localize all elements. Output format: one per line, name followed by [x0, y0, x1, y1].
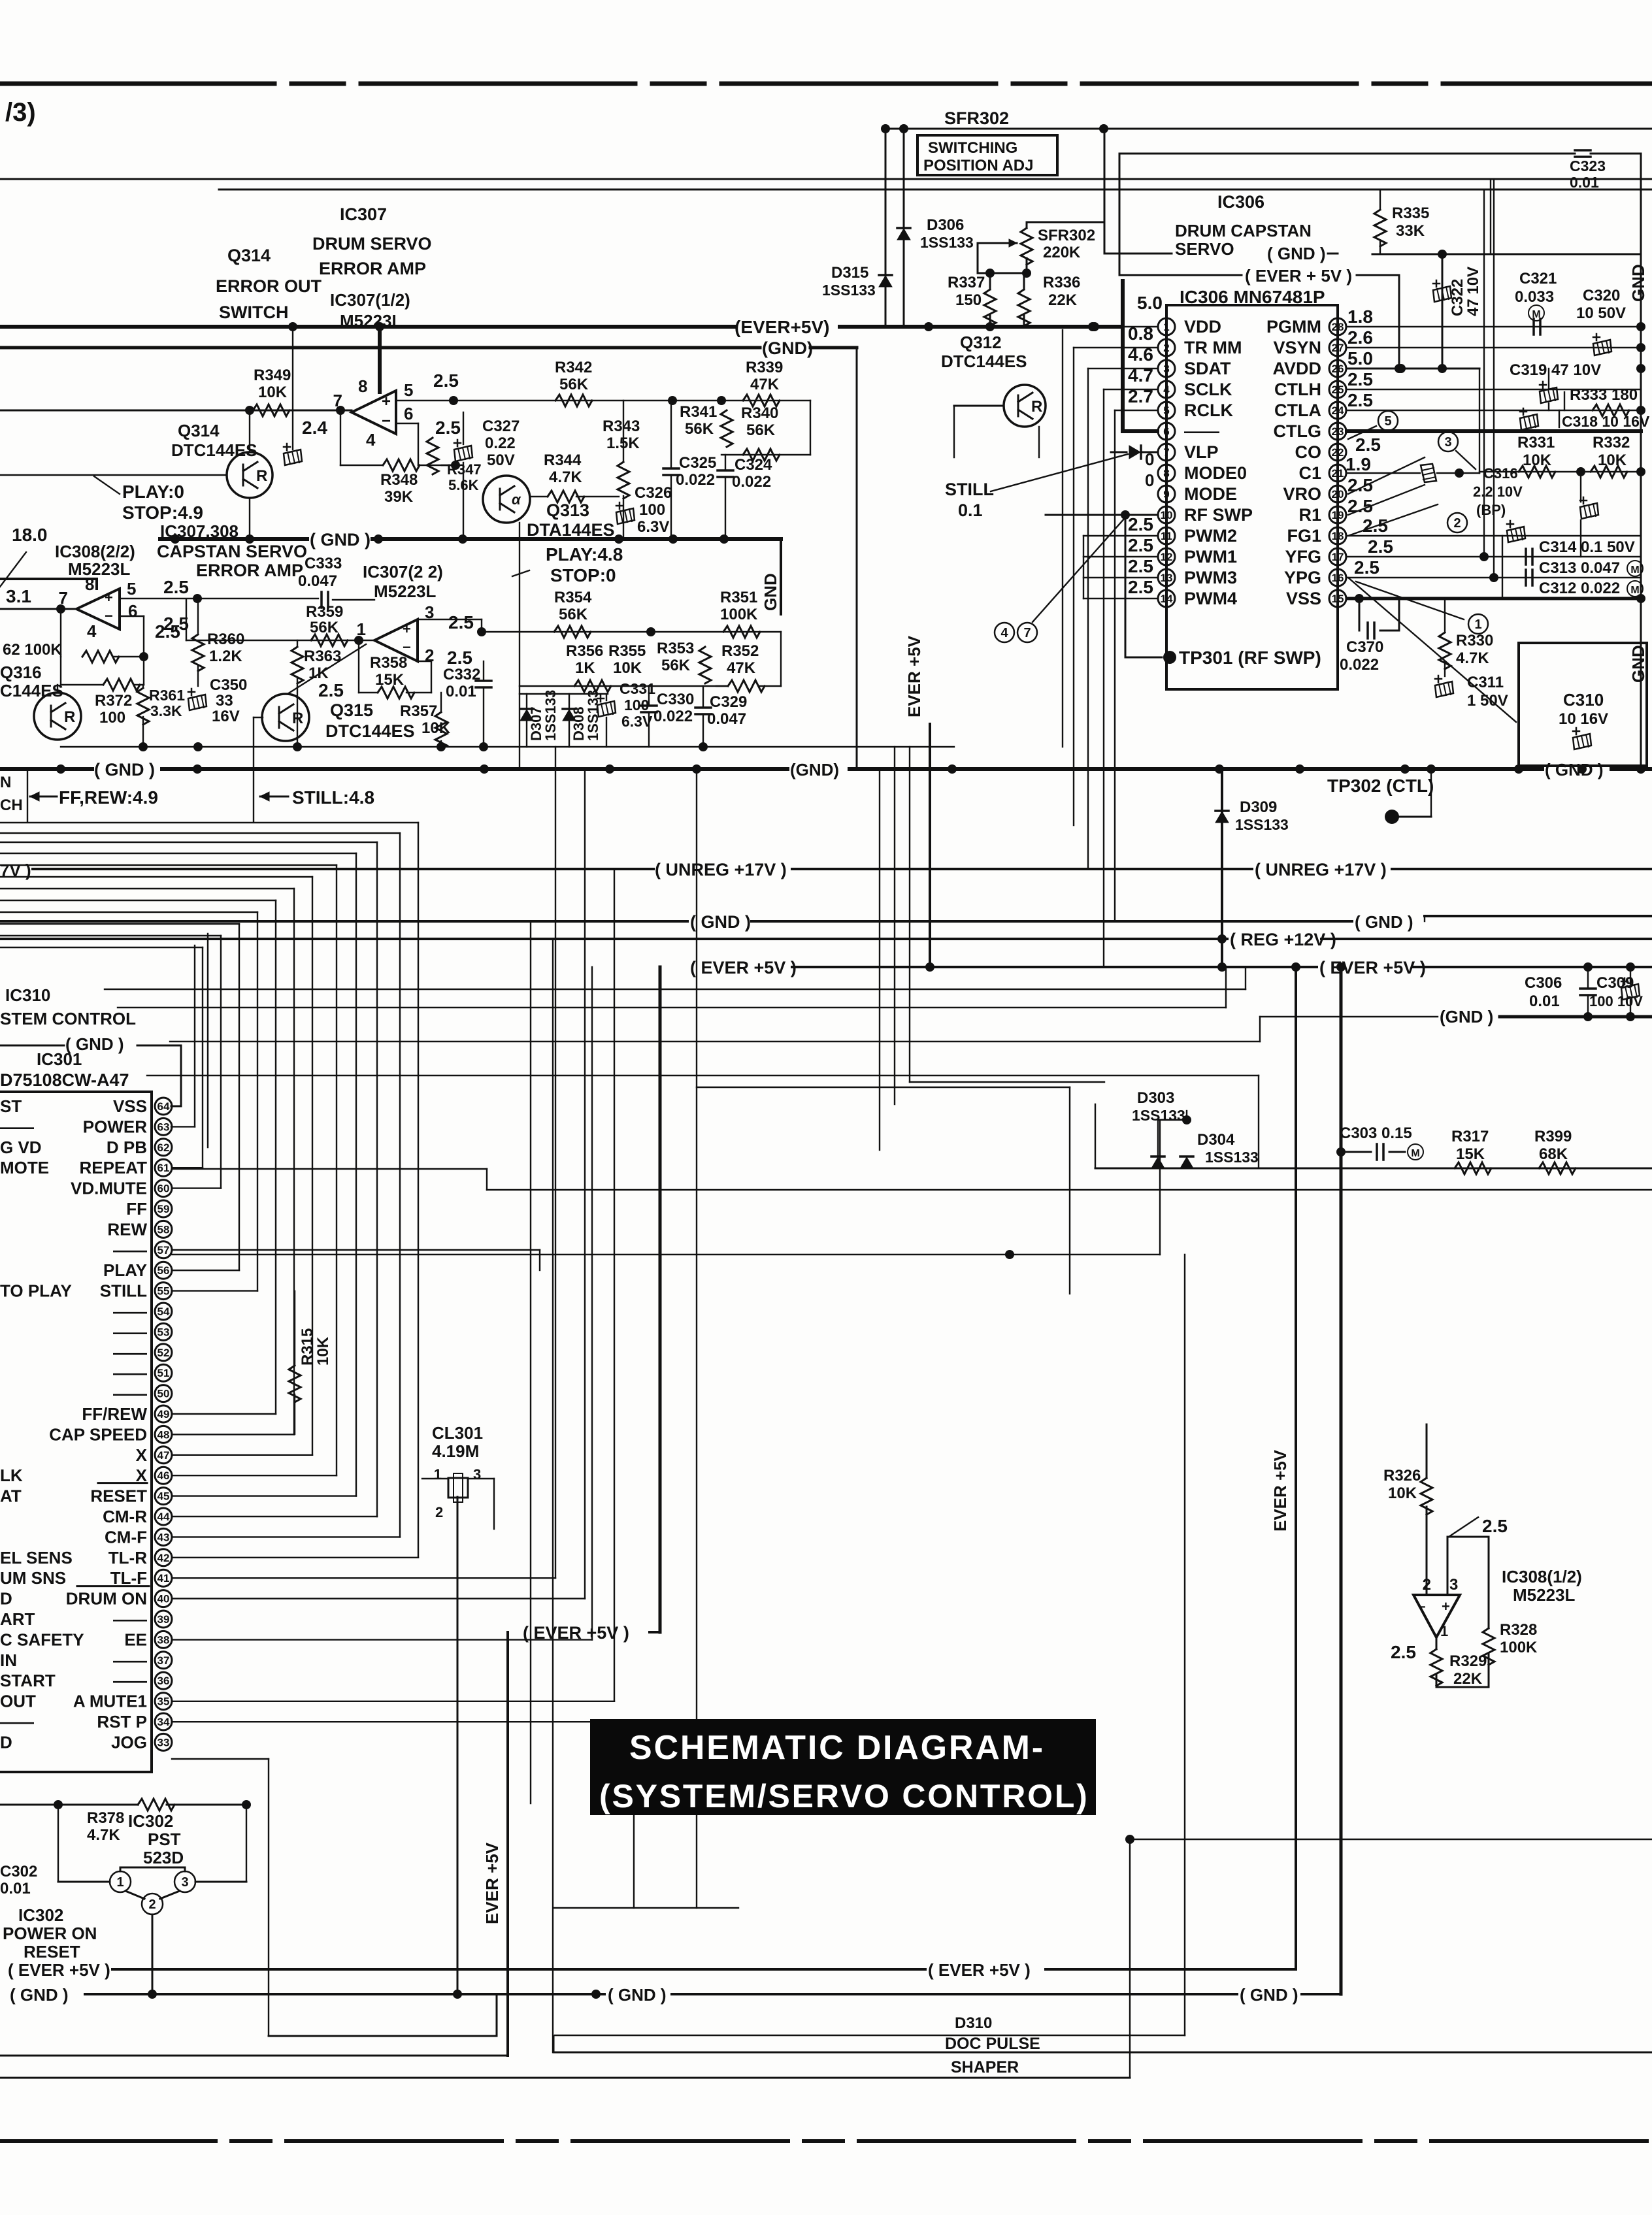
svg-text:R361: R361	[149, 687, 185, 704]
svg-text:(GND): (GND)	[790, 760, 839, 779]
svg-text:10K: 10K	[258, 384, 288, 401]
svg-text:10K: 10K	[421, 719, 451, 737]
svg-text:——: ——	[113, 1363, 147, 1383]
svg-text:8: 8	[358, 376, 367, 396]
svg-text:150: 150	[955, 291, 982, 309]
svg-text:ERROR AMP: ERROR AMP	[319, 259, 426, 278]
svg-text:D309: D309	[1240, 798, 1277, 816]
svg-text:2.5: 2.5	[1368, 536, 1393, 557]
svg-text:(BP): (BP)	[1476, 502, 1506, 518]
svg-text:15: 15	[1332, 593, 1344, 605]
svg-text:56K: 56K	[559, 376, 589, 393]
svg-text:(GND ): (GND )	[1440, 1007, 1493, 1026]
svg-text:PST: PST	[148, 1829, 181, 1849]
svg-text:C333: C333	[305, 555, 342, 572]
svg-text:52: 52	[157, 1347, 170, 1359]
svg-text:2.5: 2.5	[448, 612, 474, 632]
svg-text:1: 1	[1440, 1623, 1448, 1639]
svg-text:——: ——	[113, 1609, 147, 1629]
svg-text:——: ——	[0, 1712, 34, 1731]
svg-text:/3): /3)	[5, 98, 36, 127]
svg-text:VD.MUTE: VD.MUTE	[71, 1179, 147, 1198]
svg-text:M5223L: M5223L	[1513, 1585, 1575, 1605]
svg-text:Q314: Q314	[227, 246, 271, 265]
svg-text:ST: ST	[0, 1096, 22, 1116]
svg-text:R331: R331	[1517, 434, 1555, 451]
svg-text:STOP:0: STOP:0	[550, 565, 616, 585]
svg-text:C324: C324	[735, 456, 772, 474]
svg-text:C323: C323	[1570, 157, 1606, 174]
svg-text:−: −	[403, 639, 411, 655]
svg-text:——: ——	[0, 1117, 34, 1136]
svg-text:3: 3	[181, 1875, 188, 1890]
svg-text:523D: 523D	[143, 1848, 184, 1867]
svg-text:6.3V: 6.3V	[621, 713, 653, 730]
svg-text:10K: 10K	[613, 659, 642, 677]
svg-text:20: 20	[1332, 488, 1344, 500]
svg-text:44: 44	[157, 1511, 170, 1523]
svg-text:STILL:4.8: STILL:4.8	[292, 787, 374, 808]
svg-text:R399: R399	[1534, 1128, 1572, 1145]
svg-text:0.1: 0.1	[958, 500, 983, 520]
svg-text:IC308(2/2): IC308(2/2)	[55, 542, 135, 561]
svg-text:M5223L: M5223L	[340, 311, 402, 331]
svg-text:2.5: 2.5	[1128, 556, 1153, 576]
svg-text:0.01: 0.01	[446, 683, 476, 700]
svg-text:60: 60	[157, 1183, 170, 1195]
svg-text:R339: R339	[746, 359, 783, 376]
svg-text:2.5: 2.5	[433, 370, 459, 391]
svg-text:DOC PULSE: DOC PULSE	[945, 2035, 1040, 2053]
svg-text:R335: R335	[1392, 205, 1429, 222]
svg-text:2.5: 2.5	[447, 648, 472, 668]
svg-text:4.7K: 4.7K	[1456, 649, 1489, 667]
svg-text:0.022: 0.022	[732, 473, 771, 491]
svg-text:OUT: OUT	[0, 1692, 36, 1711]
svg-text:TR MM: TR MM	[1184, 338, 1242, 357]
svg-text:EVER +5V: EVER +5V	[482, 1842, 502, 1924]
svg-text:−: −	[1418, 1600, 1426, 1615]
svg-text:YFG: YFG	[1285, 547, 1321, 566]
svg-text:22K: 22K	[1453, 1670, 1483, 1688]
svg-text:R: R	[292, 710, 303, 727]
svg-text:( EVER + 5V ): ( EVER + 5V )	[1245, 266, 1352, 286]
svg-text:R328: R328	[1500, 1621, 1537, 1639]
svg-text:SWITCHING: SWITCHING	[928, 139, 1017, 157]
svg-text:(SYSTEM/SERVO CONTROL): (SYSTEM/SERVO CONTROL)	[599, 1778, 1089, 1814]
svg-text:AT: AT	[0, 1486, 22, 1506]
svg-text:2: 2	[1453, 516, 1461, 531]
svg-text:0: 0	[1145, 470, 1154, 490]
svg-text:EVER +5V: EVER +5V	[1270, 1449, 1290, 1532]
svg-text:IC308(1/2): IC308(1/2)	[1502, 1567, 1582, 1586]
svg-text:GND: GND	[1628, 264, 1648, 302]
svg-text:R332: R332	[1593, 434, 1630, 451]
svg-text:33K: 33K	[1396, 222, 1425, 240]
svg-text:1K: 1K	[308, 664, 329, 682]
svg-text:——: ——	[113, 1240, 147, 1260]
svg-text:CH: CH	[0, 796, 23, 814]
svg-text:( GND ): ( GND )	[1545, 760, 1604, 779]
svg-text:62: 62	[157, 1141, 170, 1154]
svg-text:STOP:4.9: STOP:4.9	[122, 502, 203, 523]
svg-text:IC302: IC302	[128, 1811, 173, 1831]
svg-text:2: 2	[148, 1897, 156, 1912]
svg-text:( GND ): ( GND )	[94, 760, 155, 779]
svg-text:X: X	[136, 1445, 148, 1465]
svg-text:SDAT: SDAT	[1184, 359, 1231, 378]
svg-text:CM-F: CM-F	[105, 1527, 147, 1547]
svg-text:STEM CONTROL: STEM CONTROL	[0, 1009, 136, 1028]
svg-text:50V: 50V	[487, 451, 515, 469]
svg-text:0.047: 0.047	[707, 710, 746, 728]
svg-text:40: 40	[157, 1593, 170, 1605]
svg-text:PLAY:4.8: PLAY:4.8	[546, 544, 623, 565]
svg-text:C350: C350	[210, 676, 247, 694]
svg-text:50: 50	[157, 1388, 170, 1400]
svg-text:C320: C320	[1583, 287, 1620, 304]
svg-text:3: 3	[1449, 1576, 1458, 1594]
svg-text:C312 0.022: C312 0.022	[1539, 580, 1620, 597]
svg-text:1SS133: 1SS133	[920, 234, 974, 251]
svg-text:RCLK: RCLK	[1184, 401, 1233, 420]
svg-text:1.2K: 1.2K	[209, 648, 242, 665]
svg-text:R363: R363	[304, 648, 341, 665]
svg-text:CAPSTAN SERVO: CAPSTAN SERVO	[157, 542, 307, 561]
svg-text:EL SENS: EL SENS	[0, 1548, 73, 1567]
svg-text:C144ES: C144ES	[0, 681, 63, 700]
svg-text:5: 5	[127, 579, 136, 599]
svg-text:3.1: 3.1	[6, 586, 31, 606]
svg-text:R353: R353	[657, 640, 694, 657]
svg-text:IC301: IC301	[37, 1049, 82, 1069]
svg-text:M5223L: M5223L	[68, 559, 130, 579]
svg-text:EE: EE	[124, 1630, 147, 1649]
svg-text:R351: R351	[720, 589, 757, 606]
svg-text:+: +	[105, 589, 113, 606]
svg-text:38: 38	[157, 1633, 170, 1646]
svg-text:39: 39	[157, 1613, 170, 1626]
svg-text:VSS: VSS	[1286, 589, 1321, 608]
svg-text:53: 53	[157, 1326, 170, 1338]
svg-text:47K: 47K	[727, 659, 756, 677]
svg-text:54: 54	[157, 1305, 170, 1318]
svg-text:ERROR OUT: ERROR OUT	[216, 276, 322, 296]
svg-text:6: 6	[128, 601, 137, 621]
svg-text:D315: D315	[831, 264, 868, 282]
svg-text:PLAY:0: PLAY:0	[122, 482, 184, 502]
svg-text:R329: R329	[1449, 1652, 1487, 1670]
svg-text:2.5: 2.5	[1391, 1642, 1416, 1662]
svg-text:——: ——	[113, 1302, 147, 1321]
svg-text:56: 56	[157, 1264, 170, 1277]
svg-text:0.022: 0.022	[676, 471, 715, 489]
svg-text:64: 64	[157, 1100, 170, 1113]
svg-text:56K: 56K	[661, 657, 691, 674]
svg-text:SHAPER: SHAPER	[951, 2058, 1019, 2076]
svg-text:M: M	[1411, 1148, 1419, 1159]
svg-text:47K: 47K	[750, 376, 780, 393]
svg-text:Q315: Q315	[330, 700, 373, 720]
svg-text:2.5: 2.5	[318, 680, 344, 700]
svg-text:3: 3	[1163, 363, 1169, 375]
svg-text:10K: 10K	[1598, 451, 1627, 469]
svg-text:( GND ): ( GND )	[1240, 1985, 1298, 2005]
svg-text:Q316: Q316	[0, 663, 42, 682]
svg-text:3: 3	[473, 1466, 481, 1483]
svg-text:3.3K: 3.3K	[150, 702, 182, 719]
svg-text:C314 0.1 50V: C314 0.1 50V	[1539, 538, 1635, 556]
svg-text:56K: 56K	[746, 421, 776, 439]
svg-text:0.01: 0.01	[0, 1880, 31, 1897]
svg-text:M5223L: M5223L	[374, 582, 436, 601]
svg-text:N: N	[0, 774, 11, 791]
svg-text:R333 180: R333 180	[1570, 386, 1638, 404]
svg-text:( UNREG +17V ): ( UNREG +17V )	[1255, 860, 1387, 879]
svg-text:10: 10	[1161, 509, 1173, 521]
svg-text:8: 8	[1163, 467, 1169, 480]
svg-text:SWITCH: SWITCH	[219, 303, 288, 322]
svg-text:100K: 100K	[720, 606, 758, 623]
svg-text:VRO: VRO	[1283, 484, 1321, 504]
svg-text:C332: C332	[443, 666, 480, 683]
svg-text:TL-F: TL-F	[110, 1568, 147, 1588]
svg-text:( EVER +5V ): ( EVER +5V )	[8, 1960, 110, 1980]
svg-text:5: 5	[1163, 404, 1169, 417]
svg-text:R360: R360	[207, 631, 244, 648]
svg-text:R342: R342	[555, 359, 592, 376]
svg-text:+: +	[403, 621, 411, 637]
svg-text:C326: C326	[635, 484, 672, 502]
svg-text:R337: R337	[948, 274, 985, 291]
svg-text:63: 63	[157, 1121, 170, 1133]
svg-text:100 10V: 100 10V	[1589, 993, 1643, 1009]
svg-text:C319 47 10V: C319 47 10V	[1510, 361, 1601, 379]
svg-text:VSS: VSS	[113, 1096, 147, 1116]
svg-text:1.9: 1.9	[1346, 454, 1371, 474]
svg-text:23: 23	[1332, 425, 1344, 438]
svg-text:1.8: 1.8	[1347, 306, 1373, 327]
svg-text:DTC144ES: DTC144ES	[171, 440, 257, 460]
svg-text:16V: 16V	[212, 708, 240, 725]
svg-text:R354: R354	[554, 589, 592, 606]
svg-text:——: ——	[113, 1322, 147, 1341]
svg-text:VSYN: VSYN	[1273, 338, 1321, 357]
svg-text:IC307(2 2): IC307(2 2)	[363, 562, 443, 582]
svg-text:( GND ): ( GND )	[310, 530, 371, 550]
svg-text:C321: C321	[1519, 270, 1557, 287]
svg-text:R330: R330	[1456, 632, 1493, 649]
svg-text:TP301 (RF SWP): TP301 (RF SWP)	[1179, 648, 1321, 668]
svg-text:IC307(1/2): IC307(1/2)	[330, 290, 410, 310]
svg-text:RF SWP: RF SWP	[1184, 505, 1253, 525]
svg-text:MODE: MODE	[1184, 484, 1237, 504]
svg-text:1: 1	[1474, 617, 1481, 632]
svg-text:3: 3	[1444, 435, 1451, 450]
svg-text:13: 13	[1161, 572, 1173, 584]
svg-text:D310: D310	[955, 2014, 992, 2032]
svg-text:2: 2	[1163, 342, 1169, 354]
svg-text:C370: C370	[1346, 638, 1383, 656]
svg-text:CTLA: CTLA	[1274, 401, 1321, 420]
svg-text:D303: D303	[1137, 1089, 1174, 1107]
svg-text:R341: R341	[680, 403, 717, 421]
svg-text:C331: C331	[619, 680, 655, 697]
svg-text:16: 16	[1332, 572, 1344, 584]
svg-text:7: 7	[1163, 446, 1169, 459]
svg-text:A MUTE1: A MUTE1	[73, 1692, 147, 1711]
svg-text:2.5: 2.5	[1354, 557, 1379, 578]
svg-text:PWM4: PWM4	[1184, 589, 1237, 608]
svg-text:R372: R372	[95, 692, 132, 710]
svg-text:2.4: 2.4	[302, 418, 327, 438]
svg-text:26: 26	[1332, 363, 1344, 375]
svg-text:59: 59	[157, 1203, 170, 1215]
svg-text:C318 10 16V: C318 10 16V	[1562, 413, 1650, 430]
svg-text:C325: C325	[679, 454, 716, 472]
svg-text:4: 4	[1000, 626, 1008, 640]
svg-text:SCLK: SCLK	[1184, 380, 1232, 399]
svg-text:R344: R344	[544, 451, 582, 469]
svg-text:28: 28	[1332, 321, 1344, 333]
svg-text:RESET: RESET	[90, 1486, 147, 1506]
svg-text:0.01: 0.01	[1570, 174, 1599, 191]
svg-text:C302: C302	[0, 1863, 37, 1880]
svg-text:56K: 56K	[559, 606, 588, 623]
svg-text:12: 12	[1161, 551, 1173, 563]
svg-text:47 10V: 47 10V	[1464, 267, 1482, 316]
svg-text:2: 2	[1423, 1576, 1431, 1594]
svg-text:2.5: 2.5	[1128, 514, 1153, 534]
svg-text:TO PLAY: TO PLAY	[0, 1281, 72, 1301]
svg-text:M: M	[1630, 585, 1639, 596]
svg-text:R: R	[64, 708, 75, 726]
svg-text:R358: R358	[370, 654, 407, 672]
svg-text:15K: 15K	[1456, 1145, 1485, 1163]
svg-text:( EVER +5V ): ( EVER +5V )	[1319, 958, 1426, 977]
svg-text:SERVO: SERVO	[1175, 239, 1234, 259]
svg-text:D306: D306	[927, 216, 964, 234]
svg-text:4: 4	[87, 621, 97, 641]
svg-text:PGMM: PGMM	[1266, 317, 1321, 336]
svg-text:ART: ART	[0, 1609, 35, 1629]
svg-text:2.5: 2.5	[1128, 577, 1153, 597]
svg-text:( EVER +5V ): ( EVER +5V )	[690, 958, 797, 977]
svg-text:EVER +5V: EVER +5V	[904, 635, 924, 717]
svg-text:25: 25	[1332, 384, 1344, 396]
svg-text:2.5: 2.5	[1347, 390, 1373, 410]
svg-text:0.033: 0.033	[1515, 288, 1554, 306]
svg-text:YPG: YPG	[1284, 568, 1321, 587]
svg-text:61: 61	[157, 1162, 170, 1174]
svg-text:2.5: 2.5	[1128, 535, 1153, 555]
svg-text:DTC144ES: DTC144ES	[941, 352, 1027, 371]
svg-text:R357: R357	[400, 702, 437, 720]
svg-text:C311: C311	[1467, 674, 1504, 691]
svg-text:2.5: 2.5	[163, 577, 189, 597]
svg-text:11: 11	[1161, 530, 1172, 542]
svg-text:IC302: IC302	[18, 1905, 63, 1925]
svg-text:21: 21	[1332, 467, 1344, 480]
svg-text:IC310: IC310	[5, 985, 50, 1005]
svg-text:33: 33	[216, 692, 233, 710]
svg-text:CTLH: CTLH	[1274, 380, 1321, 399]
svg-text:Q314: Q314	[178, 421, 220, 440]
svg-text:R355: R355	[608, 642, 646, 660]
svg-text:51: 51	[157, 1367, 170, 1379]
svg-text:LK: LK	[0, 1466, 23, 1485]
svg-text:( UNREG +17V ): ( UNREG +17V )	[655, 860, 787, 879]
svg-text:R356: R356	[566, 642, 603, 660]
svg-text:R352: R352	[721, 642, 759, 660]
svg-text:5: 5	[404, 380, 413, 400]
svg-text:C330: C330	[657, 691, 694, 708]
svg-text:2.5: 2.5	[1355, 435, 1381, 455]
svg-text:(GND): (GND)	[762, 338, 813, 358]
svg-text:C327: C327	[482, 418, 520, 435]
svg-text:58: 58	[157, 1223, 170, 1236]
svg-text:−: −	[105, 608, 113, 624]
svg-text:C1: C1	[1298, 463, 1321, 483]
svg-text:1SS133: 1SS133	[1205, 1149, 1259, 1166]
svg-text:−: −	[382, 412, 391, 430]
svg-text:C SAFETY: C SAFETY	[0, 1630, 84, 1649]
svg-text:DRUM CAPSTAN: DRUM CAPSTAN	[1175, 221, 1312, 240]
svg-text:24: 24	[1332, 404, 1344, 417]
svg-text:6: 6	[404, 404, 413, 423]
svg-text:2.5: 2.5	[1347, 369, 1373, 389]
svg-text:REPEAT: REPEAT	[79, 1158, 147, 1177]
svg-text:REW: REW	[107, 1219, 147, 1239]
svg-text:STILL: STILL	[945, 480, 994, 499]
svg-text:RESET: RESET	[24, 1942, 80, 1961]
svg-text:2.5: 2.5	[1482, 1516, 1508, 1536]
svg-text:M: M	[1630, 565, 1639, 576]
svg-text:R: R	[1031, 398, 1042, 416]
svg-text:C313 0.047: C313 0.047	[1539, 559, 1620, 577]
svg-text:IC307,308: IC307,308	[160, 521, 239, 541]
svg-text:MOTE: MOTE	[0, 1158, 49, 1177]
svg-text:19: 19	[1332, 509, 1344, 521]
svg-text:( GND ): ( GND )	[608, 1985, 667, 2005]
svg-text:+: +	[382, 393, 391, 410]
svg-text:DRUM ON: DRUM ON	[66, 1589, 147, 1609]
svg-text:C322: C322	[1449, 279, 1466, 316]
svg-text:STILL: STILL	[100, 1281, 147, 1301]
svg-text:——: ——	[113, 1384, 147, 1403]
svg-text:1SS133: 1SS133	[542, 690, 559, 741]
svg-text:47: 47	[157, 1449, 170, 1462]
svg-text:α: α	[512, 491, 521, 508]
svg-text:——: ——	[113, 1650, 147, 1670]
svg-text:MODE0: MODE0	[1184, 463, 1247, 483]
svg-text:IC306: IC306	[1217, 192, 1264, 212]
svg-text:41: 41	[157, 1572, 170, 1584]
svg-text:TP302 (CTL): TP302 (CTL)	[1327, 776, 1434, 796]
svg-text:( GND ): ( GND )	[10, 1985, 69, 2005]
svg-text:R326: R326	[1383, 1467, 1421, 1485]
svg-text:GND: GND	[761, 573, 780, 611]
svg-text:( GND ): ( GND )	[1267, 244, 1326, 263]
svg-text:CTLG: CTLG	[1274, 421, 1322, 441]
svg-text:R343: R343	[603, 418, 640, 435]
svg-text:34: 34	[157, 1716, 170, 1728]
svg-text:22K: 22K	[1048, 291, 1078, 309]
svg-text:0.01: 0.01	[1529, 993, 1560, 1010]
svg-text:39K: 39K	[384, 488, 414, 506]
svg-text:PWM2: PWM2	[1184, 526, 1237, 546]
svg-text:C310: C310	[1563, 690, 1604, 710]
